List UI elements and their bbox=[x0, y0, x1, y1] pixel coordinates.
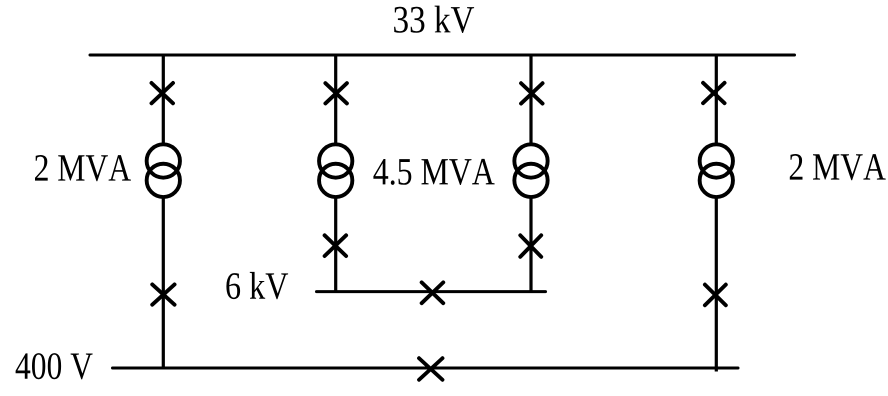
bus 6 kV bbox=[317, 290, 546, 293]
wire feeder 2 lower segment bbox=[334, 198, 337, 292]
bus 400 V bbox=[113, 367, 739, 370]
label 6 kV bbox=[226, 272, 288, 299]
label 4.5 MVA bbox=[373, 159, 494, 185]
switch X feeder 2 top bbox=[325, 83, 347, 103]
wire feeder 3 upper segment bbox=[529, 55, 532, 144]
label 400 V bbox=[16, 353, 93, 379]
switch X on 400 V bus tie bbox=[419, 358, 442, 380]
switch X feeder 4 lower bbox=[705, 285, 726, 306]
wire feeder 4 lower segment bbox=[715, 198, 718, 372]
wire feeder 4 upper segment bbox=[715, 55, 718, 144]
switch X feeder 1 lower bbox=[152, 284, 174, 304]
transformer T3 (4.5 MVA) bbox=[514, 144, 547, 197]
switch X feeder 3 lower bbox=[520, 235, 541, 256]
switch X feeder 2 lower bbox=[325, 235, 347, 256]
transformer T2 (4.5 MVA) bbox=[319, 144, 352, 197]
switch X feeder 1 top bbox=[152, 83, 174, 103]
label 2 MVA right bbox=[790, 154, 886, 180]
switch X feeder 4 top bbox=[703, 83, 725, 103]
switch X feeder 3 top bbox=[521, 83, 543, 103]
wire feeder 1 lower segment bbox=[162, 198, 165, 368]
wire feeder 1 upper segment bbox=[162, 55, 165, 144]
label 2 MVA left bbox=[35, 155, 131, 181]
wire feeder 3 lower segment bbox=[529, 198, 532, 292]
label 33 kV bbox=[394, 6, 474, 33]
wire feeder 2 upper segment bbox=[334, 55, 337, 144]
transformer T4 (2 MVA) bbox=[700, 144, 733, 197]
bus 33 kV (top busbar) bbox=[90, 54, 795, 57]
transformer T1 (2 MVA) bbox=[147, 144, 180, 197]
switch X on 6 kV bus tie bbox=[422, 282, 444, 303]
